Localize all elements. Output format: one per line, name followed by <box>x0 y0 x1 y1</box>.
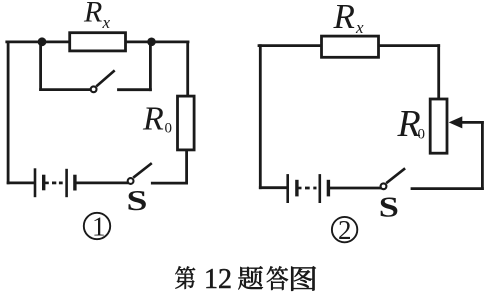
wire top (circuit 1) <box>7 41 188 44</box>
svg-text:0: 0 <box>165 120 173 136</box>
svg-text:1: 1 <box>92 212 106 242</box>
switch S1 pivot circle (circuit 1) <box>128 178 134 184</box>
branch switch lever (circuit 1) <box>96 70 114 86</box>
wire bottom-left to battery (circuit 2) <box>260 186 286 189</box>
svg-text:R: R <box>83 0 102 29</box>
wire branch after switch gap (circuit 1) <box>119 88 151 91</box>
battery B1 (circuit 1) <box>35 168 75 197</box>
svg-text:S: S <box>127 185 148 217</box>
branch switch pivot circle (circuit 1) <box>91 86 97 92</box>
svg-text:x: x <box>102 13 111 32</box>
label S (circuit 1) <box>127 185 148 217</box>
caption char 题 <box>238 266 263 289</box>
wire arrow shaft (circuit 2) <box>460 121 482 124</box>
svg-text:R: R <box>142 101 164 138</box>
wire left (circuit 2) <box>259 46 262 188</box>
svg-text:R: R <box>333 0 355 36</box>
wire battery to switch (circuit 2) <box>328 187 380 190</box>
wire branch to switch circle (circuit 1) <box>41 88 91 91</box>
junction dot right (circuit 1) <box>147 38 156 47</box>
caption char 第 <box>175 266 195 289</box>
label S (circuit 2) <box>379 192 399 224</box>
battery B2 (circuit 2) <box>288 174 329 203</box>
wire after switch S (circuit 1) <box>152 182 186 185</box>
junction dot left (circuit 1) <box>38 37 47 46</box>
wire bottom-left to battery (circuit 1) <box>8 181 33 184</box>
caption char 图 <box>291 266 316 290</box>
resistor R0 box (circuit 2) <box>430 99 447 153</box>
switch S2 pivot circle (circuit 2) <box>381 183 387 189</box>
rheostat wiper arrowhead (circuit 2) <box>449 116 463 128</box>
caption: 第 12 题答图 <box>175 264 316 294</box>
wire right upper vertical (circuit 2) <box>437 46 440 99</box>
svg-text:0: 0 <box>418 127 426 143</box>
switch S1 lever (circuit 1) <box>133 163 152 178</box>
wire right vertical (circuit 2) <box>481 122 484 188</box>
wire right upper vertical (circuit 1) <box>186 42 189 96</box>
svg-text:12: 12 <box>204 264 232 294</box>
switch S2 lever (circuit 2) <box>386 168 405 183</box>
svg-text:S: S <box>379 192 399 224</box>
wire left (circuit 1) <box>7 42 10 183</box>
svg-text:2: 2 <box>338 215 352 245</box>
resistor Rx box (circuit 1) <box>70 33 126 51</box>
wire right lower vertical (circuit 1) <box>185 150 188 183</box>
wire battery to switch (circuit 1) <box>75 181 127 184</box>
resistor R0 box (circuit 1) <box>178 96 195 150</box>
wire branch right vertical (circuit 1) <box>149 42 152 90</box>
numbered circle 2 <box>332 217 357 242</box>
wire after switch S (circuit 2) <box>412 187 482 190</box>
resistor Rx box (circuit 2) <box>322 36 379 57</box>
caption char 答 <box>267 266 288 290</box>
svg-text:x: x <box>355 18 364 37</box>
wire top (circuit 2) <box>259 44 439 47</box>
numbered circle 1 <box>84 213 110 239</box>
wire branch left vertical (circuit 1) <box>39 42 42 90</box>
